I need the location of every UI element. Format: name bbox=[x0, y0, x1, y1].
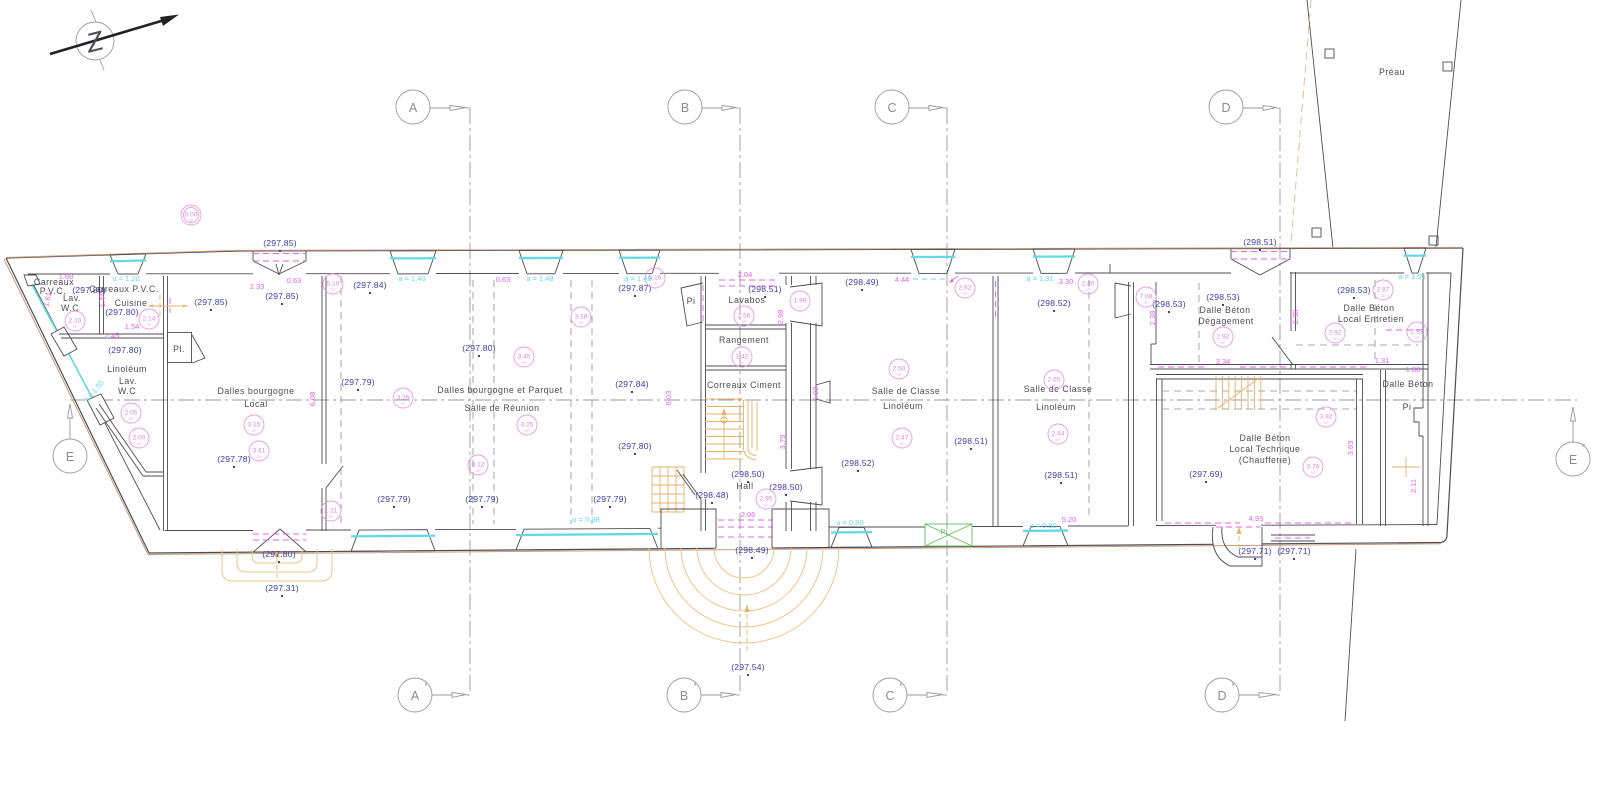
svg-text:A: A bbox=[411, 689, 420, 703]
grid bubble B bbox=[668, 90, 740, 124]
svg-text:SP: SP bbox=[1220, 340, 1226, 345]
cuisine door dimension orange bbox=[148, 295, 188, 316]
svg-text:': ' bbox=[425, 681, 427, 695]
window bottom wall BW1 bbox=[351, 530, 435, 552]
svg-text:(297.80): (297.80) bbox=[105, 307, 139, 317]
svg-text:6.08: 6.08 bbox=[308, 392, 317, 407]
opening classroom2-degagement bbox=[1115, 283, 1131, 318]
svg-text:3.79: 3.79 bbox=[778, 435, 787, 450]
grid bubble D' bbox=[1205, 678, 1280, 712]
window top wall W6 bbox=[1404, 248, 1426, 273]
svg-text:6.03: 6.03 bbox=[664, 391, 673, 406]
grid bubble B' bbox=[667, 678, 740, 712]
svg-text:(297.79): (297.79) bbox=[465, 494, 499, 504]
svg-text:SP: SP bbox=[136, 441, 142, 446]
svg-text:(298.49): (298.49) bbox=[845, 277, 879, 287]
window left slant glazing line bbox=[30, 281, 95, 403]
preau boundary left post line bbox=[1307, 0, 1333, 248]
svg-text:Salle de Réunion: Salle de Réunion bbox=[464, 403, 539, 413]
preau post square 1 bbox=[1325, 49, 1334, 58]
wall classroom1 left leaf b bbox=[811, 276, 817, 531]
svg-text:SP: SP bbox=[256, 454, 262, 459]
svg-text:Local Entretien: Local Entretien bbox=[1338, 314, 1404, 324]
svg-text:SP: SP bbox=[251, 428, 257, 433]
svg-text:(298.51): (298.51) bbox=[748, 284, 782, 294]
svg-text:': ' bbox=[1583, 442, 1585, 456]
svg-text:SP: SP bbox=[521, 360, 527, 365]
svg-text:2.38: 2.38 bbox=[1291, 310, 1300, 325]
entrance steps bottom-left door bbox=[222, 549, 332, 581]
svg-text:E: E bbox=[1569, 453, 1577, 467]
svg-text:Dalle Béton: Dalle Béton bbox=[1344, 303, 1395, 313]
svg-text:(298.48): (298.48) bbox=[695, 490, 729, 500]
svg-text:(297.79): (297.79) bbox=[341, 377, 375, 387]
porch piers hall entrance bbox=[661, 509, 829, 548]
north arrow symbol bbox=[50, 10, 179, 70]
preau boundary right post line bbox=[1436, 0, 1461, 247]
door top D1 double leaf bbox=[253, 251, 306, 275]
niche wall V4 middle bbox=[816, 381, 830, 403]
preau post square 3 bbox=[1312, 228, 1321, 237]
svg-text:1.44: 1.44 bbox=[98, 293, 107, 308]
svg-text:6.02: 6.02 bbox=[811, 387, 820, 402]
svg-text:2.38: 2.38 bbox=[1148, 311, 1157, 326]
svg-text:u = 0.90: u = 0.90 bbox=[836, 518, 863, 527]
wall degagement bottom bbox=[1150, 365, 1292, 370]
svg-text:Pi: Pi bbox=[1403, 402, 1412, 412]
svg-text:Local: Local bbox=[244, 399, 268, 409]
svg-text:Hall: Hall bbox=[736, 481, 753, 491]
wall wc2 bottom slant bbox=[96, 404, 163, 476]
entrance arc steps axis B bbox=[649, 548, 839, 651]
svg-text:Rangement: Rangement bbox=[719, 335, 769, 345]
bottom wall outer line bbox=[149, 535, 1447, 554]
beam dashed line reunion 3 bbox=[472, 280, 474, 524]
svg-text:C: C bbox=[885, 689, 894, 703]
window bottom green cross Pi bbox=[925, 524, 972, 546]
svg-text:(297.80): (297.80) bbox=[618, 441, 652, 451]
svg-text:a = 1.31: a = 1.31 bbox=[1026, 274, 1053, 283]
wall degagement left bbox=[1151, 282, 1156, 365]
window top wall W0 bbox=[110, 254, 146, 274]
svg-text:C: C bbox=[887, 101, 896, 115]
dashed line entretien horizontal bbox=[1296, 344, 1418, 346]
svg-text:(298.51): (298.51) bbox=[1243, 237, 1277, 247]
wall classroom separator bbox=[993, 276, 998, 526]
svg-text:2.04: 2.04 bbox=[738, 270, 753, 279]
wall WC-cuisine separator bbox=[100, 276, 104, 334]
terrain line along top wall bbox=[6, 247, 1463, 257]
grid bubble A' bbox=[398, 678, 470, 712]
wall classroom2 right bbox=[1110, 264, 1134, 526]
svg-text:Dalles bourgogne et Parquet: Dalles bourgogne et Parquet bbox=[437, 385, 563, 395]
beam dashed line reunion 2 bbox=[493, 280, 495, 524]
svg-text:a = 1.48: a = 1.48 bbox=[526, 274, 553, 283]
svg-text:3.34: 3.34 bbox=[1216, 357, 1231, 366]
svg-text:SP: SP bbox=[1055, 437, 1061, 442]
svg-text:SP: SP bbox=[128, 416, 134, 421]
beam dashed degagement bbox=[1198, 283, 1200, 362]
svg-text:SP: SP bbox=[899, 441, 905, 446]
svg-text:SP: SP bbox=[328, 514, 334, 519]
svg-text:SP: SP bbox=[1332, 336, 1338, 341]
svg-text:SP: SP bbox=[1051, 383, 1057, 388]
svg-text:SP: SP bbox=[797, 304, 803, 309]
opening hall-classroom1 bottom bbox=[790, 467, 822, 505]
svg-text:1.54: 1.54 bbox=[125, 322, 140, 331]
svg-text:SP: SP bbox=[72, 324, 78, 329]
door top D3 double leaf bbox=[1231, 249, 1290, 275]
window notch local technique porch right bbox=[1271, 535, 1315, 541]
wall hall left bbox=[683, 276, 706, 531]
svg-text:Linoléum: Linoléum bbox=[1036, 402, 1076, 412]
magenta circled values bbox=[65, 205, 1427, 521]
svg-text:2.11: 2.11 bbox=[1409, 479, 1418, 493]
room labels pi strip bbox=[1383, 379, 1434, 412]
tile stair box reunion bbox=[652, 467, 684, 512]
svg-text:(297.85): (297.85) bbox=[263, 238, 297, 248]
svg-text:SP: SP bbox=[146, 322, 152, 327]
axis line C bbox=[946, 108, 948, 695]
svg-text:SP: SP bbox=[1414, 335, 1420, 340]
svg-text:Salle de Classe: Salle de Classe bbox=[872, 386, 941, 396]
door hall top opening bbox=[703, 280, 779, 323]
bottom wall inner line bbox=[165, 525, 1437, 531]
room labels technique bbox=[1230, 433, 1301, 465]
svg-text:(297.80): (297.80) bbox=[108, 345, 142, 355]
svg-text:(298.52): (298.52) bbox=[841, 458, 875, 468]
svg-text:(297.71): (297.71) bbox=[1238, 546, 1272, 556]
window top wall W1 bbox=[390, 251, 436, 274]
svg-text:a = 1.48: a = 1.48 bbox=[624, 274, 651, 283]
window bottom wall BW5 bbox=[1023, 526, 1068, 546]
svg-text:(298.51): (298.51) bbox=[1044, 470, 1078, 480]
door hall bottom opening bbox=[718, 520, 772, 537]
svg-text:(298.53): (298.53) bbox=[1206, 292, 1240, 302]
svg-text:(298.53): (298.53) bbox=[1152, 299, 1186, 309]
room labels left block bbox=[34, 277, 159, 396]
svg-text:(297.31): (297.31) bbox=[265, 583, 299, 593]
right wall inner line bbox=[1437, 273, 1451, 525]
svg-text:SP: SP bbox=[578, 320, 584, 325]
svg-text:1.68: 1.68 bbox=[59, 272, 74, 281]
wall rangement-correaux bbox=[706, 366, 786, 370]
svg-text:a = 1.55: a = 1.55 bbox=[1398, 272, 1425, 281]
svg-text:SP: SP bbox=[741, 319, 747, 324]
svg-text:Z: Z bbox=[82, 25, 108, 59]
circle 0.00 inner ring bbox=[184, 208, 199, 223]
axis line B bbox=[739, 108, 741, 695]
svg-text:3.63: 3.63 bbox=[1346, 441, 1355, 456]
svg-text:2.06: 2.06 bbox=[741, 510, 756, 519]
svg-text:Pl.: Pl. bbox=[173, 344, 185, 354]
svg-text:(297.80): (297.80) bbox=[462, 343, 496, 353]
preau post square 4 bbox=[1429, 236, 1438, 245]
beam dashed line reunion 4 bbox=[570, 280, 572, 524]
cyan dim dashes classroom1 bbox=[913, 278, 947, 280]
svg-text:u = 1.20: u = 1.20 bbox=[112, 274, 139, 283]
svg-text:(298.50): (298.50) bbox=[769, 482, 803, 492]
svg-text:E: E bbox=[66, 450, 74, 464]
svg-text:(297.79): (297.79) bbox=[593, 494, 627, 504]
svg-text:SP: SP bbox=[1143, 300, 1149, 305]
svg-text:SP: SP bbox=[1380, 293, 1386, 298]
door bottom BD1 double leaf bbox=[253, 529, 306, 552]
svg-text:': ' bbox=[900, 681, 902, 695]
grid bubble A bbox=[396, 90, 470, 124]
svg-text:1.88: 1.88 bbox=[1406, 365, 1421, 374]
niche Pi hall left bbox=[681, 283, 703, 326]
dashed corridor lines technique bbox=[1162, 391, 1356, 409]
svg-text:SP: SP bbox=[896, 372, 902, 377]
svg-text:1.31: 1.31 bbox=[1375, 356, 1390, 365]
beam dashed line classroom2 bbox=[1088, 280, 1090, 520]
axis line E bbox=[70, 399, 1577, 401]
top wall inner line bbox=[28, 273, 1451, 274]
window top wall W3 bbox=[619, 250, 660, 274]
wall local right (reunion separator) bbox=[322, 276, 343, 531]
preau dashed terrain line bbox=[1291, 0, 1311, 243]
svg-text:Pi: Pi bbox=[687, 296, 696, 306]
svg-text:SP: SP bbox=[330, 287, 336, 292]
left wall inner line bbox=[28, 274, 160, 530]
svg-text:(297.87): (297.87) bbox=[618, 283, 652, 293]
left wall pier box top bbox=[24, 275, 40, 286]
svg-text:Dalle Béton: Dalle Béton bbox=[1240, 433, 1291, 443]
wall hall right leaf a bbox=[786, 276, 792, 531]
preau post square 2 bbox=[1443, 62, 1452, 71]
svg-text:(297.79): (297.79) bbox=[377, 494, 411, 504]
svg-text:u = 0.98: u = 0.98 bbox=[572, 515, 599, 524]
svg-text:SP: SP bbox=[400, 401, 406, 406]
svg-text:(Chaufferie): (Chaufferie) bbox=[1239, 455, 1291, 465]
left wall outer line bbox=[6, 258, 149, 553]
cyan dimension texts bbox=[82, 272, 1425, 530]
room labels entretien bbox=[1338, 303, 1404, 324]
axis line A bbox=[469, 108, 471, 695]
svg-text:(297.78): (297.78) bbox=[217, 454, 251, 464]
wall technique top bbox=[1156, 375, 1363, 380]
svg-text:D: D bbox=[1217, 689, 1226, 703]
svg-text:(298.53): (298.53) bbox=[1337, 285, 1371, 295]
svg-text:u = 0.90: u = 0.90 bbox=[1029, 521, 1056, 530]
svg-text:Lav.: Lav. bbox=[119, 376, 137, 386]
wall lavabos-rangement bbox=[706, 325, 786, 329]
boundary fence line lower right bbox=[1345, 549, 1356, 721]
orange drain cross bbox=[1392, 457, 1420, 477]
svg-text:Dalle Béton: Dalle Béton bbox=[1383, 379, 1434, 389]
svg-text:(297.85): (297.85) bbox=[265, 291, 299, 301]
svg-text:3.30: 3.30 bbox=[1059, 277, 1074, 286]
svg-text:SP: SP bbox=[524, 428, 530, 433]
left wall pier box 1 bbox=[51, 327, 77, 356]
svg-text:SP: SP bbox=[652, 281, 658, 286]
svg-text:Dalle Béton: Dalle Béton bbox=[1200, 305, 1251, 315]
svg-text:SP: SP bbox=[475, 468, 481, 473]
window bottom wall BW3 bbox=[831, 527, 872, 547]
window top wall W4 bbox=[911, 249, 955, 273]
top wall outer line bbox=[6, 248, 1463, 258]
svg-text:': ' bbox=[1232, 681, 1234, 695]
terrain line along left and bottom bbox=[4, 259, 1441, 555]
beam dashed line reunion 1 bbox=[340, 276, 342, 526]
svg-text:4.93: 4.93 bbox=[1249, 514, 1264, 523]
magenta dimension texts bbox=[41, 270, 1420, 524]
svg-text:Préau: Préau bbox=[1379, 67, 1405, 77]
wall technique left bbox=[1157, 379, 1163, 521]
svg-text:SP: SP bbox=[962, 291, 968, 296]
beam dashed entretien bbox=[1374, 280, 1376, 360]
svg-text:(298.49): (298.49) bbox=[735, 545, 769, 555]
svg-text:2.98: 2.98 bbox=[776, 310, 785, 325]
grid bubble D bbox=[1209, 90, 1280, 124]
svg-text:Linoléum: Linoléum bbox=[883, 401, 923, 411]
room labels classroom1 bbox=[872, 386, 941, 411]
svg-text:B: B bbox=[681, 101, 689, 115]
magenta leader to 2.62 bbox=[949, 276, 958, 283]
svg-text:Dégagement: Dégagement bbox=[1198, 316, 1253, 326]
svg-text:(297.85): (297.85) bbox=[194, 297, 228, 307]
svg-text:Linoléum: Linoléum bbox=[107, 364, 147, 374]
door leaf reunion-hall bbox=[677, 470, 695, 495]
svg-text:D: D bbox=[1221, 101, 1230, 115]
room labels classroom2 bbox=[1024, 384, 1093, 412]
svg-text:SP: SP bbox=[1085, 287, 1091, 292]
svg-text:SP: SP bbox=[1323, 420, 1329, 425]
window bottom wall BW2 wide bbox=[516, 528, 658, 550]
opening hall-classroom1 top bbox=[790, 283, 822, 326]
svg-text:': ' bbox=[694, 681, 696, 695]
stair hall bbox=[705, 399, 757, 460]
technique bottom magenta dashes bbox=[1165, 522, 1355, 524]
room labels degagement bbox=[1198, 305, 1253, 326]
wall technique right bbox=[1357, 379, 1363, 524]
elevation labels navy bbox=[194, 237, 1371, 676]
beam dashed line reunion 5 bbox=[591, 280, 593, 524]
svg-text:Lavabos: Lavabos bbox=[729, 295, 766, 305]
svg-text:Local Technique: Local Technique bbox=[1230, 444, 1301, 454]
svg-text:B: B bbox=[680, 689, 688, 703]
svg-text:4.44: 4.44 bbox=[895, 275, 910, 284]
svg-text:(297.54): (297.54) bbox=[731, 662, 765, 672]
svg-text:2.45: 2.45 bbox=[105, 331, 120, 340]
axis line D bbox=[1279, 108, 1281, 695]
svg-text:Correaux Ciment: Correaux Ciment bbox=[707, 380, 781, 390]
svg-text:Lav.: Lav. bbox=[63, 293, 81, 303]
svg-text:SP: SP bbox=[763, 502, 769, 507]
room labels reunion bbox=[437, 385, 563, 413]
wall cuisine bottom bbox=[59, 334, 164, 338]
svg-text:SP: SP bbox=[1310, 470, 1316, 475]
porch steps technique bbox=[1212, 527, 1262, 566]
svg-text:(298.50): (298.50) bbox=[731, 469, 765, 479]
svg-text:SP: SP bbox=[739, 360, 745, 365]
stair technique treads bbox=[1216, 376, 1261, 410]
preau label bbox=[1379, 67, 1405, 77]
grid bubble E' bbox=[1556, 407, 1590, 476]
svg-text:5.20: 5.20 bbox=[1062, 515, 1077, 524]
room labels local bbox=[218, 386, 295, 409]
svg-text:0.63: 0.63 bbox=[287, 276, 302, 285]
svg-text:Pi: Pi bbox=[941, 527, 948, 536]
svg-text:W.C: W.C bbox=[118, 386, 136, 396]
wall degagement-entretien bbox=[1272, 272, 1296, 369]
wall entretien bottom bbox=[1292, 330, 1428, 369]
svg-text:0.63: 0.63 bbox=[496, 275, 511, 284]
svg-text:Dalles bourgogne: Dalles bourgogne bbox=[218, 386, 295, 396]
window top wall W5 bbox=[1033, 249, 1075, 273]
closet Pl box bbox=[168, 333, 206, 364]
svg-text:(297.84): (297.84) bbox=[615, 379, 649, 389]
left wall pier box 2 bbox=[87, 394, 114, 425]
window top wall W2 bbox=[519, 250, 563, 273]
svg-text:(297.71): (297.71) bbox=[1277, 546, 1311, 556]
svg-text:(297.80): (297.80) bbox=[262, 549, 296, 559]
wall pi strip bbox=[1381, 273, 1429, 526]
grid bubble C bbox=[875, 90, 947, 124]
svg-text:A: A bbox=[409, 101, 418, 115]
right wall outer line bbox=[1447, 248, 1463, 535]
wall local left bbox=[164, 276, 168, 531]
room labels hall block bbox=[707, 295, 781, 491]
svg-text:2.33: 2.33 bbox=[250, 282, 265, 291]
grid bubble C' bbox=[873, 678, 947, 712]
svg-text:Carreaux P.V.C.: Carreaux P.V.C. bbox=[89, 284, 159, 294]
svg-text:a = 1.40: a = 1.40 bbox=[398, 274, 425, 283]
svg-text:(297.84): (297.84) bbox=[353, 280, 387, 290]
grid bubble E bbox=[53, 404, 87, 473]
svg-text:(297.69): (297.69) bbox=[1189, 469, 1223, 479]
svg-text:(298.52): (298.52) bbox=[1037, 298, 1071, 308]
svg-text:(298.51): (298.51) bbox=[954, 436, 988, 446]
